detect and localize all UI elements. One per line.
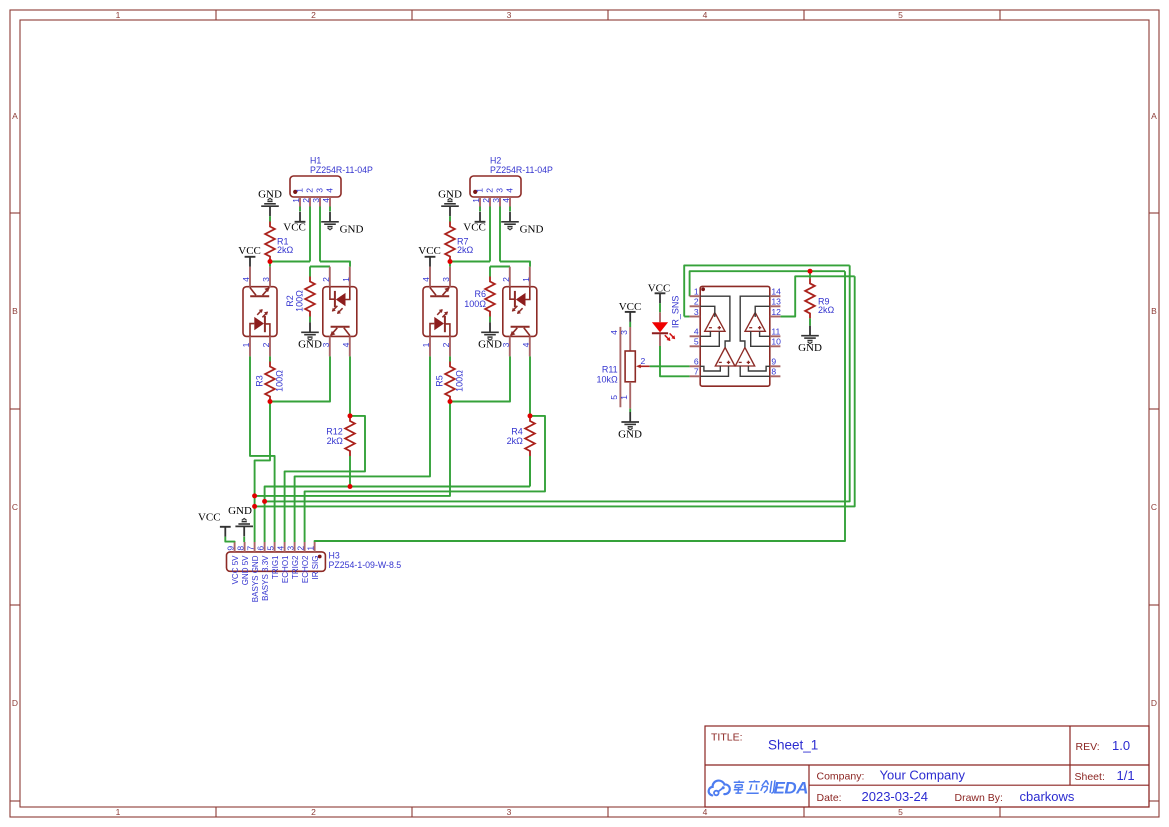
op-amp B (top-right) — [745, 313, 765, 332]
svg-text:1: 1 — [471, 198, 481, 203]
svg-text:2: 2 — [295, 546, 305, 551]
svg-text:Company:: Company: — [817, 771, 865, 783]
svg-text:VCC: VCC — [283, 221, 306, 233]
wire U1 pin1 out — [690, 271, 845, 296]
svg-text:PZ254-1-09-W-8.5: PZ254-1-09-W-8.5 — [329, 560, 402, 570]
wire H1.3 to sensor pin1 — [320, 262, 350, 267]
sensor pin stub — [349, 267, 351, 357]
H2 pin 2 — [489, 197, 491, 207]
wire R7 node to H2.2 — [450, 261, 490, 263]
opto sensor right OPT2 — [323, 287, 357, 337]
svg-text:3: 3 — [311, 198, 321, 203]
title block — [705, 726, 1149, 807]
wire H2.3 down — [499, 207, 501, 262]
svg-text:TITLE:: TITLE: — [711, 732, 743, 744]
wire BASYS GND from R3 — [255, 402, 270, 543]
wire sensor pin2 down — [449, 356, 451, 361]
svg-text:4: 4 — [321, 198, 331, 203]
svg-text:2: 2 — [441, 342, 451, 347]
svg-text:2: 2 — [311, 10, 316, 20]
svg-text:3: 3 — [495, 188, 505, 193]
wire TRIG1 net — [250, 356, 275, 542]
svg-text:R11: R11 — [602, 364, 618, 374]
svg-text:BASYS 3.3V: BASYS 3.3V — [261, 555, 270, 601]
U1 pin 12 — [770, 316, 781, 318]
wire R12 bottom — [349, 456, 351, 487]
wire BASYS 3.3V bus — [265, 487, 530, 502]
svg-text:VCC: VCC — [238, 245, 261, 257]
svg-text:2: 2 — [261, 342, 271, 347]
svg-text:7: 7 — [694, 367, 699, 377]
svg-text:3: 3 — [441, 277, 451, 282]
svg-text:12: 12 — [771, 307, 781, 317]
resistor R6 — [485, 277, 495, 317]
resistor R12 — [345, 416, 355, 456]
potentiometer R11 — [620, 327, 649, 409]
connector H1 PZ254R-11-04P — [290, 176, 341, 197]
wire BASYS GND from R5 — [255, 402, 450, 496]
svg-text:VCC: VCC — [463, 221, 486, 233]
GND flag below R6 — [481, 322, 499, 340]
wire H3 pin6 up — [264, 501, 266, 542]
svg-text:VCC 5V: VCC 5V — [231, 555, 240, 585]
svg-text:11: 11 — [771, 327, 780, 337]
U1 internal pin6 to C- — [700, 366, 720, 371]
op-amp A (top-left) — [705, 313, 725, 332]
svg-text:1: 1 — [241, 342, 251, 347]
svg-text:3: 3 — [507, 807, 512, 817]
svg-text:R6: R6 — [474, 289, 486, 299]
svg-text:REV:: REV: — [1076, 741, 1100, 753]
wire H1.3 down — [319, 207, 321, 262]
VCC flag at H3 pin9 — [220, 527, 231, 537]
IR LED IR_SNS — [652, 312, 675, 346]
wire U1 pin12 gnd — [780, 276, 854, 316]
H3 pin 8 — [244, 542, 246, 552]
svg-text:IR_SNS: IR_SNS — [670, 296, 680, 329]
H1 pin 2 — [309, 197, 311, 207]
svg-text:10kΩ: 10kΩ — [596, 375, 618, 385]
svg-text:4: 4 — [341, 342, 351, 347]
svg-text:1/1: 1/1 — [1117, 768, 1135, 783]
EasyEDA logo — [709, 779, 808, 798]
wire U1 pin3 up — [684, 265, 850, 316]
svg-text:1: 1 — [619, 395, 629, 400]
svg-text:4: 4 — [694, 327, 699, 337]
wire R6 top — [489, 267, 491, 277]
svg-text:A: A — [12, 111, 18, 121]
svg-text:GND: GND — [478, 338, 502, 350]
wire R11 wiper to U1 pin6 — [650, 365, 690, 367]
H1 pin 3 — [319, 197, 321, 207]
svg-text:2: 2 — [641, 356, 646, 366]
H3 pin 4 — [284, 542, 286, 552]
wire LED to U1 pin7 — [660, 346, 690, 376]
H2 pin 1 — [479, 197, 481, 207]
svg-text:5: 5 — [898, 10, 903, 20]
U1 internal pin2 to A — [700, 306, 715, 317]
wire 3.3V to U1 pin3 — [265, 265, 850, 501]
U1 internal pin14 to D out — [740, 296, 770, 347]
wire node to sensor pin3 — [449, 262, 451, 267]
svg-text:10: 10 — [771, 337, 781, 347]
resistor R7 — [445, 222, 455, 262]
U1 pin 7 — [690, 375, 701, 377]
svg-text:PZ254R-11-04P: PZ254R-11-04P — [490, 165, 553, 175]
op-amp C (bottom-left) — [715, 348, 735, 367]
resistor R4 — [525, 416, 535, 456]
svg-text:R5: R5 — [435, 375, 445, 387]
GND flag at H3 pin8 — [235, 519, 253, 537]
connector H2 PZ254R-11-04P — [470, 176, 521, 197]
H2 pin 4 — [509, 197, 511, 207]
svg-text:1: 1 — [475, 188, 485, 193]
svg-text:H3: H3 — [329, 551, 340, 561]
svg-text:2: 2 — [481, 198, 491, 203]
svg-text:R12: R12 — [326, 426, 343, 436]
wire R5 node to right sensor pin3 — [450, 356, 510, 401]
svg-text:1: 1 — [295, 188, 305, 193]
svg-text:GND: GND — [520, 224, 544, 236]
svg-text:4: 4 — [521, 342, 531, 347]
wire R1 node to H1.2 — [270, 261, 310, 263]
wire GND to R1 — [269, 216, 271, 221]
svg-text:3: 3 — [619, 330, 629, 335]
H2 pin 3 — [499, 197, 501, 207]
svg-text:TRIG2: TRIG2 — [291, 555, 300, 579]
U1 internal pin5 to A+ — [700, 331, 719, 346]
svg-text:5: 5 — [609, 395, 619, 400]
VCC flag above R11 — [625, 312, 636, 322]
VCC flag at sensor pin4 — [425, 257, 436, 267]
junction R7 bottom — [448, 259, 453, 264]
wire R2 top — [309, 267, 311, 277]
opto sensor left OPT1 — [243, 287, 277, 337]
svg-text:2: 2 — [321, 277, 331, 282]
svg-text:D: D — [12, 698, 18, 708]
sensor pin stub — [329, 267, 331, 357]
wire R9 to GND — [809, 318, 811, 325]
svg-text:6: 6 — [694, 357, 699, 367]
svg-text:1: 1 — [116, 807, 121, 817]
VCC flag at sensor pin4 — [245, 257, 256, 267]
svg-text:C: C — [12, 502, 18, 512]
junction R3 bottom — [268, 399, 273, 404]
wire GND to H3 pin8 — [243, 537, 245, 542]
resistor R9 — [805, 278, 815, 318]
wire H2.3 to sensor pin1 — [500, 262, 530, 267]
svg-text:H2: H2 — [490, 156, 501, 166]
svg-text:3: 3 — [501, 342, 511, 347]
svg-text:3: 3 — [261, 277, 271, 282]
svg-text:2kΩ: 2kΩ — [818, 305, 835, 315]
U1 pin 10 — [770, 345, 781, 347]
svg-text:Date:: Date: — [817, 792, 842, 804]
svg-text:GND: GND — [618, 428, 642, 440]
U1 pin 13 — [770, 305, 781, 307]
svg-text:D: D — [1151, 698, 1157, 708]
wire R9 top — [809, 271, 811, 278]
svg-text:9: 9 — [771, 357, 776, 367]
U1 pin 8 — [770, 375, 781, 377]
svg-text:2: 2 — [305, 188, 315, 193]
svg-text:GND: GND — [228, 505, 252, 517]
svg-text:3: 3 — [491, 198, 501, 203]
svg-text:6: 6 — [255, 546, 265, 551]
svg-text:9: 9 — [225, 546, 235, 551]
wire sensor pin2 down — [269, 356, 271, 361]
wire VCC to R11 pin3 — [629, 322, 631, 327]
GND flag above R7 — [441, 198, 459, 216]
GND flag at H2 pin4 — [501, 212, 519, 230]
U1 internal pin1 to C out — [700, 296, 730, 347]
wire VCC to LED — [659, 303, 661, 312]
svg-text:A: A — [1151, 111, 1157, 121]
svg-text:B: B — [12, 306, 18, 316]
H3 pin 2 — [304, 542, 306, 552]
wire H2.1 to VCC — [479, 207, 481, 212]
svg-text:3: 3 — [315, 188, 325, 193]
comparator IC U1 body — [700, 286, 770, 386]
wire R3 node to right sensor pin3 — [270, 356, 330, 401]
GND flag at H1 pin4 — [321, 212, 339, 230]
U1 pin 11 — [770, 335, 781, 337]
U1 internal pin11 to B+ — [760, 331, 770, 336]
sensor pin stub — [509, 267, 511, 357]
svg-text:C: C — [1151, 502, 1157, 512]
svg-text:GND: GND — [298, 338, 322, 350]
wire GND to R7 — [449, 216, 451, 221]
junction R4 top — [528, 413, 533, 418]
svg-text:BASYS GND: BASYS GND — [251, 555, 260, 602]
svg-text:2: 2 — [301, 198, 311, 203]
svg-text:2: 2 — [501, 277, 511, 282]
connector H3 PZ254-1-09-W-8.5 — [227, 552, 326, 571]
wire U1 pin3 jog — [684, 316, 689, 318]
resistor R2 — [305, 277, 315, 317]
svg-text:2: 2 — [485, 188, 495, 193]
wire ECHO1 net — [285, 416, 365, 542]
svg-text:13: 13 — [771, 297, 781, 307]
svg-text:3: 3 — [694, 307, 699, 317]
U1 internal pin4 to A- — [700, 331, 710, 336]
junction BASYS 3.3V — [262, 499, 267, 504]
wire TRIG2 net — [295, 356, 430, 542]
H3 pin 3 — [294, 542, 296, 552]
H3 pin 9 — [234, 542, 236, 552]
svg-text:8: 8 — [235, 546, 245, 551]
svg-text:B: B — [1151, 306, 1157, 316]
svg-text:5: 5 — [265, 546, 275, 551]
svg-text:VCC: VCC — [198, 511, 221, 523]
svg-text:3: 3 — [285, 546, 295, 551]
svg-text:1: 1 — [521, 277, 531, 282]
svg-text:4: 4 — [501, 198, 511, 203]
svg-text:2kΩ: 2kΩ — [457, 245, 474, 255]
wire R6 top to sensor pin2 — [490, 266, 510, 268]
U1 pin 6 — [690, 365, 701, 367]
U1 pin 4 — [690, 335, 701, 337]
svg-text:4: 4 — [421, 277, 431, 282]
svg-text:8: 8 — [771, 367, 776, 377]
svg-text:2023-03-24: 2023-03-24 — [862, 789, 929, 804]
U1 pin 14 — [770, 295, 781, 297]
U1 internal pin8 to D- — [740, 366, 770, 376]
junction BASYS GND B — [252, 504, 257, 509]
resistor R3 — [265, 362, 275, 402]
GND flag above R1 — [261, 198, 279, 216]
opto sensor right OPT4 — [503, 287, 537, 337]
svg-text:2: 2 — [311, 807, 316, 817]
svg-text:1: 1 — [341, 277, 351, 282]
svg-text:VCC: VCC — [418, 245, 441, 257]
junction BASYS GND A — [252, 493, 257, 498]
svg-text:EDA: EDA — [774, 779, 809, 798]
svg-text:5: 5 — [898, 807, 903, 817]
svg-text:PZ254R-11-04P: PZ254R-11-04P — [310, 165, 373, 175]
wire H2.2 down — [489, 207, 491, 262]
svg-text:4: 4 — [505, 188, 515, 193]
junction R9 top — [808, 269, 813, 274]
op-amp D (bottom-right) — [735, 348, 754, 367]
svg-text:GND: GND — [340, 224, 364, 236]
svg-text:3: 3 — [321, 342, 331, 347]
svg-text:100Ω: 100Ω — [275, 370, 285, 392]
svg-text:1.0: 1.0 — [1112, 738, 1130, 753]
svg-text:100Ω: 100Ω — [455, 370, 465, 392]
svg-text:1: 1 — [421, 342, 431, 347]
H1 pin 4 — [329, 197, 331, 207]
svg-text:IR SIG: IR SIG — [311, 556, 320, 580]
svg-text:Drawn By:: Drawn By: — [955, 792, 1003, 804]
svg-text:R3: R3 — [255, 375, 265, 387]
U1 internal pin10 to B- — [751, 331, 770, 346]
svg-text:ECHO2: ECHO2 — [301, 555, 310, 583]
sensor pin stub — [449, 267, 451, 357]
wire right sensor pin4 down — [529, 356, 531, 416]
VCC flag at H2 pin1 — [475, 212, 486, 222]
svg-text:cbarkows: cbarkows — [1020, 789, 1075, 804]
H3 pin 1 — [314, 542, 316, 552]
GND flag below R9 — [801, 326, 819, 344]
GND flag below R11 — [621, 412, 639, 430]
svg-text:GND: GND — [798, 342, 822, 354]
wire H1.2 down — [309, 207, 311, 262]
svg-text:5: 5 — [694, 337, 699, 347]
svg-text:H1: H1 — [310, 156, 321, 166]
svg-text:2kΩ: 2kΩ — [277, 245, 294, 255]
wire R2 to GND — [309, 317, 311, 323]
svg-text:4: 4 — [275, 546, 285, 551]
svg-text:4: 4 — [241, 277, 251, 282]
sensor pin stub — [529, 267, 531, 357]
wire VCC to H3 pin9 — [225, 537, 234, 542]
wire R4 bottom — [529, 456, 531, 487]
H3 pin 6 — [264, 542, 266, 552]
svg-text:Sheet:: Sheet: — [1075, 771, 1105, 783]
svg-text:4: 4 — [703, 807, 708, 817]
GND flag below R2 — [301, 322, 319, 340]
junction R12 top — [348, 413, 353, 418]
U1 internal pin13 to B — [755, 306, 770, 317]
wire H1.1 to VCC — [299, 207, 301, 212]
wire R4 bottom to 3.3V bus — [529, 456, 531, 487]
U1 pin 3 — [690, 316, 701, 318]
sensor pin stub — [269, 267, 271, 357]
wire R2 top to sensor pin2 — [310, 266, 330, 268]
svg-text:4: 4 — [325, 188, 335, 193]
svg-text:100Ω: 100Ω — [464, 299, 486, 309]
U1 pin 1 — [690, 295, 701, 297]
svg-text:14: 14 — [771, 287, 781, 297]
svg-text:Sheet_1: Sheet_1 — [768, 738, 818, 753]
svg-text:7: 7 — [245, 546, 255, 551]
wire R11 pin1 to GND — [629, 409, 631, 412]
junction R5 bottom — [448, 399, 453, 404]
resistor R5 — [445, 362, 455, 402]
svg-text:1: 1 — [694, 287, 699, 297]
H3 pin 7 — [254, 542, 256, 552]
wire ECHO2 net — [305, 416, 545, 542]
VCC flag above LED — [655, 293, 666, 303]
U1 pin 5 — [690, 345, 701, 347]
svg-text:1: 1 — [291, 198, 301, 203]
wire node to sensor pin3 — [269, 262, 271, 267]
svg-text:2: 2 — [694, 297, 699, 307]
svg-text:1: 1 — [116, 10, 121, 20]
wire right sensor pin4 down — [349, 356, 351, 416]
junction R1 bottom — [268, 259, 273, 264]
wire H2.4 to GND — [509, 207, 511, 212]
svg-text:2kΩ: 2kΩ — [327, 436, 344, 446]
U1 pin 2 — [690, 305, 701, 307]
svg-text:3: 3 — [507, 10, 512, 20]
svg-text:ECHO1: ECHO1 — [281, 555, 290, 583]
svg-text:TRIG1: TRIG1 — [271, 555, 280, 579]
svg-text:4: 4 — [703, 10, 708, 20]
wire IR SIG bus — [315, 271, 845, 542]
opto sensor left OPT3 — [423, 287, 457, 337]
U1 internal pin9 to D+ — [748, 366, 769, 371]
wire GND to U1 pin12 — [255, 276, 855, 506]
svg-text:4: 4 — [609, 330, 619, 335]
U1 internal pin7 to C+ — [700, 366, 728, 376]
svg-text:1: 1 — [305, 546, 315, 551]
svg-text:100Ω: 100Ω — [294, 290, 304, 312]
wire H1.4 to GND — [329, 207, 331, 212]
junction R12 on 3.3V bus — [348, 484, 353, 489]
H3 pin 5 — [274, 542, 276, 552]
sensor pin stub — [249, 267, 251, 357]
sensor pin stub — [429, 267, 431, 357]
resistor R1 — [265, 222, 275, 262]
wire R6 to GND — [489, 317, 491, 323]
svg-text:GND 5V: GND 5V — [241, 555, 250, 585]
svg-text:Your Company: Your Company — [880, 768, 966, 783]
U1 pin 9 — [770, 365, 781, 367]
svg-text:R4: R4 — [511, 426, 523, 436]
VCC flag at H1 pin1 — [295, 212, 306, 222]
H1 pin 1 — [299, 197, 301, 207]
svg-text:2kΩ: 2kΩ — [507, 436, 524, 446]
